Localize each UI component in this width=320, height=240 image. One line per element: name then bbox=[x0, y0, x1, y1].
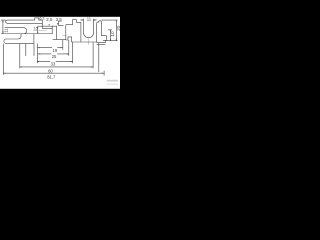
dim row 33 bbox=[37, 61, 73, 63]
centerline slot (faint) bbox=[33, 30, 47, 32]
ladder extension verticals left bbox=[3, 44, 37, 75]
side view: outer right wall + foot bbox=[96, 23, 106, 42]
ladder extension verticals right bbox=[63, 40, 104, 76]
side view: foot lower line bbox=[97, 44, 106, 46]
dim row 25 bbox=[38, 53, 69, 55]
side view: U channel outer left wall bbox=[80, 22, 82, 42]
side view: base bottom left part bbox=[66, 37, 97, 42]
arrows row 25 bbox=[38, 53, 69, 54]
svg-text:6,3: 6,3 bbox=[39, 16, 44, 20]
top view: right column bbox=[52, 26, 56, 40]
svg-text:11: 11 bbox=[87, 17, 92, 22]
white background bbox=[0, 0, 120, 100]
black band bottom bbox=[0, 89, 120, 100]
top view: lower arm right edge bbox=[33, 34, 35, 44]
faint watermark bars bottom right bbox=[107, 80, 118, 82]
arrows 2,5 / 3,5 pointers bbox=[49, 23, 59, 26]
side view: left wall bbox=[65, 25, 67, 40]
side view: left bracket bbox=[59, 21, 64, 26]
dimension 11 vertical left bbox=[1, 20, 5, 34]
arrowheads bbox=[2, 19, 117, 73]
svg-text:15: 15 bbox=[34, 26, 38, 30]
svg-text:3,5: 3,5 bbox=[56, 17, 63, 22]
top view: tab T1 bbox=[35, 18, 43, 23]
top view: riser curve to lower arm bbox=[4, 34, 34, 44]
connecting ledge line bbox=[53, 39, 66, 41]
arrows row 33 bbox=[37, 61, 73, 62]
side view: U slot centerline bbox=[87, 38, 89, 45]
right dims: extension lines bbox=[102, 20, 118, 41]
svg-text:10: 10 bbox=[110, 31, 115, 37]
dim line 20 bbox=[115, 20, 117, 41]
svg-text:60: 60 bbox=[48, 68, 53, 73]
dim row 81.7 bbox=[3, 72, 104, 74]
top view: slot capsule bbox=[5, 28, 27, 34]
dim row 19 bbox=[38, 47, 63, 49]
dim 11 top: arrows bbox=[80, 19, 96, 21]
svg-text:11: 11 bbox=[4, 28, 9, 33]
svg-text:25: 25 bbox=[52, 54, 57, 59]
top view: long bottom mid edge bbox=[5, 33, 53, 35]
side view: top surface + tab bbox=[66, 20, 81, 25]
arrows dim 10 bbox=[110, 30, 111, 41]
dim line 10 bbox=[110, 30, 112, 41]
svg-text:19: 19 bbox=[53, 48, 58, 53]
arrows inner height dim bbox=[37, 26, 38, 34]
top view: step down right of pill bbox=[42, 23, 52, 28]
svg-text:20: 20 bbox=[116, 25, 120, 31]
top view: mid shelf line bbox=[38, 25, 57, 27]
arrows row 19 bbox=[38, 47, 63, 48]
arrows row 60 bbox=[20, 66, 93, 67]
dim row 60 bbox=[20, 66, 93, 68]
black band top bbox=[0, 0, 120, 17]
arrows dim 11 top bbox=[82, 19, 96, 20]
svg-text:2,5: 2,5 bbox=[46, 17, 53, 22]
svg-text:81,7: 81,7 bbox=[47, 75, 56, 80]
arrows dim 20 bbox=[116, 20, 117, 41]
side view: U inner walls + bottom arc bbox=[84, 20, 95, 38]
inner height dim bbox=[37, 26, 39, 34]
side view: base top stub left bbox=[63, 35, 66, 37]
arrows row 81.7 bbox=[3, 73, 104, 74]
svg-text:33: 33 bbox=[51, 62, 56, 67]
side view: right ridge bbox=[97, 21, 107, 40]
arrows dim 11 left bbox=[2, 20, 3, 34]
top view: upper pill top edge bbox=[6, 20, 43, 23]
dimension texts bbox=[4, 16, 121, 79]
